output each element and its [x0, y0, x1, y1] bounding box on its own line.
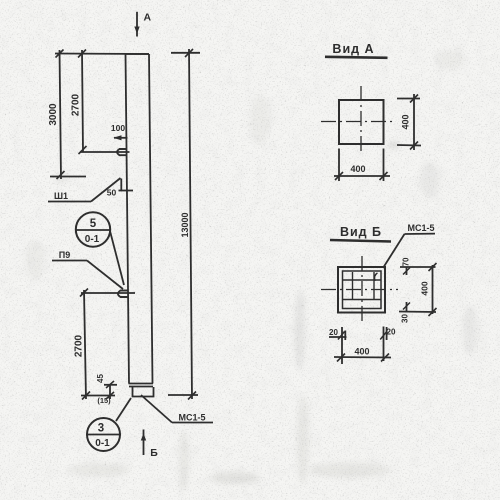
tick 13000 bottom — [188, 392, 196, 400]
small dim 45 ext — [104, 384, 117, 386]
svg-text:2700: 2700 — [71, 93, 82, 116]
callout circle 5 — [76, 212, 110, 246]
svg-text:50: 50 — [107, 188, 117, 198]
P9 underline — [52, 260, 87, 262]
view A square — [339, 100, 384, 144]
svg-text:Вид А: Вид А — [332, 42, 374, 56]
bottom extension of 3000 — [50, 176, 86, 178]
main column view group — [48, 12, 213, 455]
dim line 3000 vertical — [60, 50, 62, 179]
section arrow B bottom — [143, 430, 145, 456]
svg-text:45: 45 — [96, 374, 105, 383]
view B right ext bottom — [399, 311, 436, 314]
50 tick vertical — [120, 179, 122, 191]
dim 30 tick — [403, 303, 410, 310]
view B right ext top — [400, 266, 436, 268]
view B vertical centerline — [361, 256, 363, 321]
svg-text:Б: Б — [150, 447, 158, 459]
svg-text:400: 400 — [354, 347, 369, 357]
svg-text:3000: 3000 — [48, 103, 59, 126]
view A right dim ext bottom — [397, 144, 421, 147]
svg-text:А: А — [144, 12, 152, 24]
circle 3 chord — [86, 434, 121, 436]
top extension right piece for 13000 — [171, 52, 200, 54]
svg-text:Вид Б: Вид Б — [340, 225, 382, 239]
view B 20 left dim line — [329, 336, 347, 338]
svg-text:100: 100 — [111, 123, 125, 133]
svg-text:МС1-5: МС1-5 — [407, 223, 434, 233]
view A bottom tick right — [380, 172, 388, 180]
view A vertical centerline — [360, 86, 362, 154]
tick 2700 bottom — [79, 146, 87, 154]
svg-text:МС1-5: МС1-5 — [178, 413, 205, 423]
view A group — [321, 57, 421, 181]
view A right tick top — [410, 95, 418, 103]
bottom extension for 13000 — [168, 394, 198, 396]
column right edge — [149, 54, 153, 384]
scan smudges — [25, 50, 478, 490]
tick 2700 top — [78, 50, 86, 58]
view A right dim line — [413, 94, 415, 150]
view A right tick bottom — [410, 142, 418, 150]
50 dim ext horizontal — [119, 190, 134, 192]
svg-text:20: 20 — [387, 328, 396, 337]
svg-text:0-1: 0-1 — [85, 234, 100, 245]
view B bottom ext left — [341, 327, 343, 364]
column top edge — [126, 53, 150, 55]
view A title underline — [325, 57, 388, 58]
bottom extension line left — [81, 395, 115, 397]
dim 400 right tick bottom — [429, 308, 437, 316]
view A bottom dim line — [334, 175, 390, 177]
tick 2700L top — [80, 289, 88, 297]
dim 400 right line — [432, 265, 434, 314]
view B grid hline 2 — [343, 299, 381, 301]
svg-text:3: 3 — [98, 423, 104, 435]
svg-text:30: 30 — [401, 314, 410, 323]
view B title underline — [330, 240, 391, 242]
MC1-5 top leader — [383, 234, 405, 268]
Sh1 underline — [48, 201, 91, 203]
circle 5 chord — [76, 229, 111, 231]
svg-text:400: 400 — [350, 164, 365, 174]
svg-text:(15): (15) — [97, 396, 111, 405]
MC1-5 underline bottom — [172, 422, 213, 424]
view B grid vline 2 — [373, 272, 375, 300]
column bottom line 2 — [129, 386, 153, 388]
view A right dim ext top — [397, 98, 420, 100]
tick 45 top — [106, 381, 114, 388]
section arrow A top — [136, 12, 138, 37]
view B inner square — [343, 271, 382, 309]
view B small arc — [375, 273, 378, 281]
tick 13000 top — [185, 49, 193, 57]
MC1-5 leader bottom — [141, 395, 172, 423]
svg-text:0-1: 0-1 — [95, 438, 110, 449]
view B bottom ext right — [383, 327, 385, 362]
view B bottom tick left — [337, 354, 345, 362]
MC1-5 top underline — [405, 233, 436, 235]
tick 2700L bottom — [82, 392, 90, 400]
dim 70 tick — [403, 268, 410, 275]
view A bottom tick left — [335, 172, 343, 180]
leader circle3 to shoe — [116, 398, 131, 421]
view B group — [321, 234, 437, 364]
view B 20 right tick — [380, 332, 387, 340]
lug 2 (loop) — [118, 291, 128, 298]
lug 1 (loop) — [117, 149, 127, 155]
svg-text:13000: 13000 — [180, 212, 190, 237]
view B bottom ext right2 — [386, 327, 388, 340]
svg-text:Ш1: Ш1 — [54, 191, 68, 201]
svg-text:5: 5 — [90, 218, 97, 230]
view A horizontal centerline — [321, 121, 393, 123]
top extension line — [55, 53, 149, 56]
svg-text:20: 20 — [329, 328, 338, 337]
dim 100 arrow — [114, 137, 128, 139]
shoe MC1-5 rectangle — [133, 387, 154, 397]
view B horizontal centerline — [321, 289, 398, 291]
dim line 2700 lower — [84, 290, 86, 399]
tick 45 bottom — [106, 392, 114, 399]
main view texts — [48, 12, 206, 460]
tick 3000 top — [56, 50, 64, 58]
view B bottom tick right — [381, 354, 389, 362]
small dim 45 line — [109, 384, 111, 399]
extension line at lug2 level — [81, 292, 135, 294]
dim line 13000 — [189, 49, 192, 399]
Sh1 leader slanted — [91, 178, 121, 202]
dim line 2700 vertical — [82, 50, 83, 152]
svg-text:70: 70 — [402, 257, 411, 266]
view B outer square — [338, 267, 385, 313]
svg-text:400: 400 — [420, 281, 430, 295]
view B 20 left tick — [338, 332, 345, 340]
view B bottom 400 dim line — [334, 356, 391, 359]
extension line at lug1 level — [80, 151, 130, 153]
column left edge — [126, 54, 130, 384]
view A bottom ext right — [383, 149, 385, 182]
P9 leader — [87, 261, 123, 290]
dim 70 line — [406, 267, 408, 275]
svg-text:П9: П9 — [59, 250, 70, 260]
callout circle 3 — [87, 418, 120, 451]
svg-text:2700: 2700 — [74, 334, 85, 357]
svg-text:400: 400 — [401, 114, 411, 129]
dim 30 line — [406, 302, 408, 312]
view B grid vline 1 — [352, 272, 354, 300]
leader circle5 to lug2 — [110, 231, 124, 285]
column bottom line 1 — [129, 383, 154, 385]
view A bottom ext left — [338, 149, 340, 182]
tick 3000 bottom — [57, 171, 65, 179]
view B grid hline 1 — [343, 279, 381, 281]
dim 400 right tick top — [429, 263, 437, 271]
view B bottom ext left2 — [344, 331, 346, 341]
